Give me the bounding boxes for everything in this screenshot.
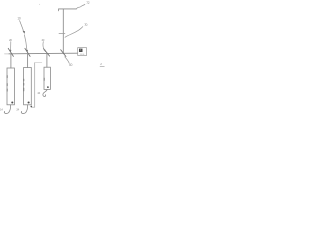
node dot C1 outlet [11, 101, 13, 103]
wire leader from 60 to J4 [65, 57, 70, 63]
valve V3 slash [43, 48, 49, 56]
wire leader from 20 to J1 [10, 42, 12, 50]
column C3 vessel [44, 67, 50, 89]
svg-text:70: 70 [84, 23, 87, 27]
wire branch pipe to column 2 [27, 54, 29, 68]
node tick on riser [59, 32, 65, 34]
svg-text:24: 24 [16, 108, 19, 112]
valve V1 slash [8, 48, 13, 56]
svg-text:180: 180 [80, 54, 85, 56]
wire branch pipe to column 1 [10, 54, 12, 68]
wire C1 bottom tail [4, 105, 10, 114]
wire C3 bottom curl [43, 90, 47, 97]
wire leader arrow from 10 [20, 21, 24, 31]
column C2 vessel [24, 68, 32, 105]
svg-text:72: 72 [86, 1, 89, 5]
svg-text:14: 14 [0, 108, 3, 112]
wire top product line [59, 8, 77, 10]
pump box U1 [78, 48, 87, 56]
wire leader from 72 [77, 4, 85, 8]
valve V2 slash [25, 48, 30, 56]
wire vertical riser pipe [62, 9, 64, 53]
wire C2 bottom tail [21, 105, 27, 114]
column C1 vessel [7, 68, 14, 105]
pump icon [79, 49, 83, 52]
node dot C3 outlet [47, 86, 49, 88]
svg-text:60: 60 [69, 63, 72, 67]
wire leader from 70 [65, 27, 83, 38]
svg-text:2: 2 [99, 62, 102, 66]
node dot interconnect end [30, 106, 32, 108]
node dot C2 outlet [28, 101, 30, 103]
wire branch pipe to column 3 [46, 53, 48, 67]
wire manifold line [5, 53, 10, 55]
wire leader continuing to junction J2 [24, 35, 27, 50]
wire interconnect leader L [35, 62, 42, 64]
valve V4 slash [61, 50, 66, 57]
svg-text:44: 44 [37, 91, 40, 95]
wire leader from 40 to J3 [43, 42, 44, 51]
svg-text:10: 10 [17, 17, 20, 21]
